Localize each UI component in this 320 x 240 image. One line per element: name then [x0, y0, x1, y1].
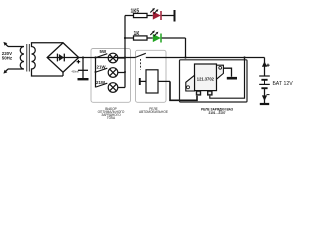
svg-text:21W: 21W: [96, 80, 106, 85]
svg-text:21W: 21W: [97, 64, 107, 69]
svg-text:400mk: 400mk: [72, 70, 80, 73]
svg-text:АВТОМОБИЛЬНОЕ: АВТОМОБИЛЬНОЕ: [139, 110, 168, 114]
svg-text:121.3702: 121.3702: [197, 76, 215, 81]
svg-text:БАТ 12V: БАТ 12V: [273, 81, 294, 87]
svg-text:5W: 5W: [100, 49, 107, 54]
svg-text:1К5: 1К5: [131, 8, 140, 14]
svg-text:2101 - 2107: 2101 - 2107: [208, 111, 225, 115]
svg-text:50Hz: 50Hz: [2, 56, 13, 61]
svg-text:1К: 1К: [134, 31, 141, 37]
svg-text:ТОКА: ТОКА: [107, 116, 116, 120]
